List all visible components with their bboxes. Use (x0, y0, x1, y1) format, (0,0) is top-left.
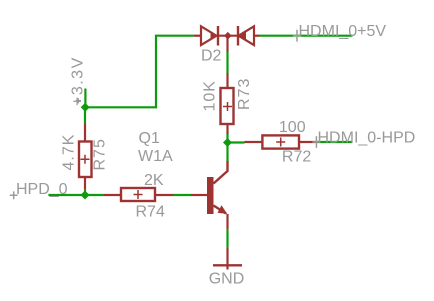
resistor R73 bottom pin (226, 124, 228, 134)
svg-text:GND: GND (209, 270, 245, 287)
svg-text:Q1: Q1 (139, 130, 160, 147)
wire collector junction to R72 (228, 141, 245, 143)
resistor R73 body (221, 88, 234, 124)
label origin tick HDMI_0-HPD (312, 136, 320, 148)
resistor R72 right pin (299, 141, 315, 143)
ground bar (213, 264, 242, 266)
junction at HPD_0 node (81, 191, 90, 200)
svg-text:100: 100 (279, 119, 306, 136)
resistor R74 body (121, 188, 155, 201)
resistor R73 top pin (226, 73, 228, 88)
diode D2 left filled tip (211, 32, 217, 39)
wire emitter to GND (226, 230, 228, 248)
wire HPD_0 rail (48, 194, 104, 196)
diode D2 center junction to R73 pin (226, 36, 228, 52)
transistor Q1 emitter arrow (218, 205, 228, 214)
diode D2 right triangle (239, 26, 255, 45)
svg-text:HDMI_0-HPD: HDMI_0-HPD (318, 129, 416, 146)
wire R75 bottom to HPD_0 rail (84, 190, 86, 196)
svg-text:+3.3V: +3.3V (70, 56, 87, 106)
resistor R72 left pin (245, 141, 263, 143)
transistor Q1 base pin (191, 194, 207, 196)
diode D2 right pin (254, 35, 260, 37)
wire R72 right to HDMI_0-HPD label (315, 141, 352, 143)
ground pin (226, 248, 228, 270)
resistor R75 top pin (84, 124, 86, 142)
svg-text:W1A: W1A (138, 148, 173, 165)
wire R74 right to Q1 base (173, 194, 191, 196)
svg-text:R75: R75 (92, 138, 109, 170)
svg-text:D2: D2 (201, 48, 222, 65)
resistor R75 bottom pin (84, 177, 86, 190)
supply +3.3V stub wire (84, 89, 86, 108)
transistor Q1 emitter lead (214, 206, 227, 214)
wire diode center drop to R73 (226, 52, 228, 73)
resistor R74 right pin (155, 194, 173, 196)
transistor Q1 base bar (207, 177, 214, 214)
diode D2 middle wire (218, 35, 239, 37)
resistor R75 origin cross (81, 155, 90, 164)
wire R73 bottom to collector junction (226, 133, 228, 161)
label origin cross HPD_0 (10, 191, 18, 199)
resistor R73 origin cross (223, 102, 232, 111)
junction at collector node (223, 138, 232, 147)
svg-text:4.7K: 4.7K (61, 134, 78, 171)
svg-text:10K: 10K (202, 80, 219, 111)
svg-text:R73: R73 (236, 78, 253, 110)
transistor Q1 collector lead (214, 161, 228, 184)
diode D2 right filled tip (239, 32, 246, 40)
diode D2 left triangle (201, 26, 217, 45)
resistor R72 body (262, 135, 299, 148)
supply +3.3V origin cross (76, 98, 81, 103)
wire +3.3V junction to R75 top (84, 107, 86, 124)
transistor Q1 emitter pin down (226, 214, 228, 230)
svg-text:R74: R74 (136, 204, 165, 221)
resistor R75 body (79, 142, 92, 178)
diode D2 left pin (193, 35, 201, 37)
svg-text:HDMI_0+5V: HDMI_0+5V (299, 23, 387, 40)
resistor R74 left pin (104, 194, 121, 196)
svg-text:R72: R72 (282, 149, 311, 166)
label origin tick HDMI_0+5V (293, 30, 301, 42)
wire top rail right segment (net HDMI_0+5V) (260, 35, 353, 37)
svg-text:HPD_0: HPD_0 (16, 181, 68, 198)
diode D2 right cathode bar (237, 26, 239, 46)
wire top rail left segment (net HDMI_0+5V) (85, 36, 193, 108)
resistor R72 origin cross (276, 138, 285, 147)
junction dot at diode center (224, 32, 232, 40)
resistor R74 origin cross (134, 190, 143, 199)
diode D2 left cathode bar (217, 26, 219, 46)
svg-text:2K: 2K (144, 172, 164, 189)
junction at +3.3V node (81, 103, 90, 112)
